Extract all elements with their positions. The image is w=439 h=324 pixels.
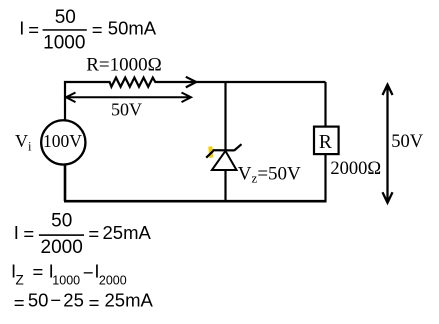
svg-text:Z: Z bbox=[16, 273, 24, 288]
svg-text:=: = bbox=[23, 223, 34, 244]
svg-text:R: R bbox=[319, 132, 332, 153]
svg-text:1000: 1000 bbox=[52, 274, 80, 288]
svg-text:25: 25 bbox=[63, 290, 84, 311]
svg-text:25mA: 25mA bbox=[105, 290, 154, 311]
svg-text:=: = bbox=[88, 223, 99, 244]
svg-text:50V: 50V bbox=[391, 132, 424, 152]
svg-text:−: − bbox=[50, 289, 61, 310]
svg-text:1000: 1000 bbox=[43, 32, 85, 53]
svg-text:2000Ω: 2000Ω bbox=[330, 159, 381, 179]
svg-text:50: 50 bbox=[55, 7, 76, 28]
svg-text:100V: 100V bbox=[43, 131, 82, 151]
svg-text:50: 50 bbox=[28, 290, 49, 311]
svg-text:I: I bbox=[14, 222, 19, 243]
svg-text:2000: 2000 bbox=[99, 274, 127, 288]
svg-text:=: = bbox=[33, 261, 44, 282]
svg-text:−: − bbox=[83, 262, 94, 283]
svg-text:Vz=50V: Vz=50V bbox=[238, 163, 301, 185]
svg-text:=: = bbox=[92, 19, 103, 40]
svg-text:Vi: Vi bbox=[15, 131, 32, 154]
svg-text:R=1000Ω: R=1000Ω bbox=[86, 54, 162, 75]
svg-text:=: = bbox=[28, 19, 39, 40]
svg-text:=: = bbox=[14, 292, 25, 313]
svg-text:50: 50 bbox=[51, 211, 72, 232]
svg-text:50V: 50V bbox=[111, 99, 142, 119]
svg-text:50mA: 50mA bbox=[108, 18, 157, 39]
svg-text:25mA: 25mA bbox=[103, 222, 152, 243]
svg-text:2000: 2000 bbox=[41, 237, 83, 258]
svg-text:=: = bbox=[89, 292, 100, 313]
svg-text:I: I bbox=[19, 18, 24, 39]
